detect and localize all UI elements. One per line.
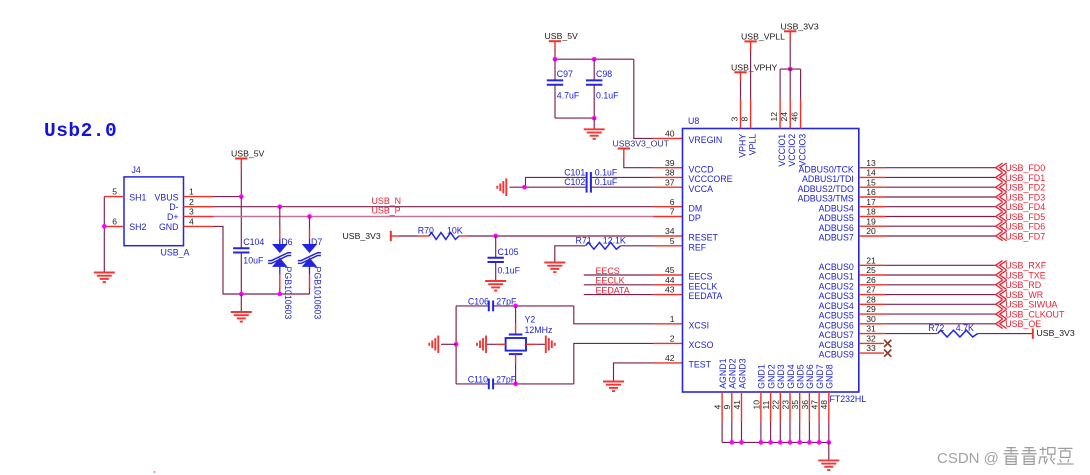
- svg-text:USB_WR: USB_WR: [1005, 290, 1043, 300]
- wire AGND2 pin9: [731, 392, 733, 422]
- power port USB_VPHY: [734, 71, 746, 73]
- svg-text:VCCA: VCCA: [689, 184, 714, 194]
- svg-text:USB_A: USB_A: [161, 248, 190, 258]
- wire R71 to REF pin5: [621, 245, 654, 247]
- svg-text:30: 30: [866, 314, 876, 324]
- svg-text:45: 45: [665, 265, 675, 275]
- svg-text:EECS: EECS: [689, 272, 713, 282]
- svg-text:22: 22: [771, 400, 781, 410]
- wire USB_P (D+): [214, 216, 654, 218]
- svg-text:ADBUS4: ADBUS4: [819, 203, 854, 213]
- pin 13 ADBUS0/TCK wire: [859, 167, 886, 169]
- pin 18 ADBUS5 wire: [859, 216, 886, 218]
- svg-text:USB_FD7: USB_FD7: [1005, 231, 1045, 241]
- ground under C104: [231, 312, 252, 322]
- junction GND7: [817, 440, 822, 445]
- svg-text:36: 36: [800, 400, 810, 410]
- ground under C98: [584, 129, 605, 139]
- svg-text:GND4: GND4: [786, 364, 796, 389]
- sheet entry USB_FD4: [996, 202, 1007, 211]
- junction VBUS/USB_5V: [239, 194, 244, 199]
- junction C104/gnd: [239, 292, 244, 297]
- wire AGND1 pin4: [721, 392, 723, 422]
- svg-text:0.1uF: 0.1uF: [596, 90, 619, 100]
- svg-text:16: 16: [866, 187, 876, 197]
- svg-text:24: 24: [779, 112, 789, 122]
- svg-text:ACBUS1: ACBUS1: [819, 272, 854, 282]
- wire crystal top rail: [456, 305, 489, 307]
- svg-text:AGND1: AGND1: [718, 358, 728, 388]
- svg-text:Usb2.0: Usb2.0: [44, 120, 117, 142]
- svg-text:REF: REF: [689, 242, 707, 252]
- sheet entry USB_OE: [996, 319, 1007, 328]
- sheet entry USB_FD1: [996, 173, 1007, 182]
- junction GND2: [768, 440, 773, 445]
- wire R72 to USB_3V3: [978, 333, 1032, 335]
- wire VCCIO3 pin46: [800, 69, 802, 99]
- svg-text:D+: D+: [167, 212, 179, 222]
- svg-text:6: 6: [112, 217, 117, 227]
- wire ACBUS7 to R72: [885, 333, 937, 335]
- svg-text:1: 1: [189, 187, 194, 197]
- crystal Y2 12MHz: [515, 306, 517, 324]
- svg-text:AGND3: AGND3: [737, 358, 747, 388]
- svg-text:C101: C101: [564, 167, 585, 177]
- junction J4 pin6: [102, 224, 107, 229]
- J4 pin 4 stub: [184, 225, 214, 227]
- svg-text:VCCIO3: VCCIO3: [798, 134, 808, 167]
- sheet entry USB_FD2: [996, 183, 1007, 192]
- svg-text:C105: C105: [498, 247, 519, 257]
- junction AGND2: [729, 440, 734, 445]
- svg-text:18: 18: [866, 207, 876, 217]
- svg-text:R70: R70: [418, 226, 434, 236]
- svg-text:C97: C97: [557, 69, 573, 79]
- sideways ground (crystal left): [477, 336, 486, 354]
- svg-text:42: 42: [665, 353, 675, 363]
- wire crystal bottom rail: [456, 383, 489, 385]
- wire EECLK: [584, 284, 653, 286]
- wire GND8 pin48: [828, 392, 830, 422]
- junction D6/gnd: [277, 292, 282, 297]
- wire GND4 pin23: [789, 392, 791, 422]
- power port USB_3V3 (left): [390, 231, 392, 241]
- wire GND5 pin35: [799, 392, 801, 422]
- svg-text:USB_FD3: USB_FD3: [1005, 192, 1045, 202]
- svg-text:ACBUS9: ACBUS9: [819, 350, 854, 360]
- wire GND2 pin11: [770, 392, 772, 422]
- svg-text:0.1uF: 0.1uF: [595, 167, 618, 177]
- capacitor C101: [587, 172, 591, 183]
- svg-text:C110: C110: [468, 374, 488, 384]
- wire USB_3V3 to VCCIO pins: [789, 31, 791, 41]
- junction GND4: [788, 440, 793, 445]
- svg-text:USB_SIWUA: USB_SIWUA: [1005, 300, 1057, 310]
- svg-text:C98: C98: [596, 69, 612, 79]
- wire C101 left: [526, 177, 587, 187]
- pin 29 ACBUS5 wire: [859, 313, 886, 315]
- svg-text:21: 21: [866, 255, 876, 265]
- svg-text:2: 2: [189, 197, 194, 207]
- junction GND5: [797, 440, 802, 445]
- pin 30 ACBUS6 wire: [859, 323, 886, 325]
- svg-text:USB_FD6: USB_FD6: [1005, 222, 1045, 232]
- svg-text:SH1: SH1: [129, 192, 146, 202]
- capacitor C102: [587, 182, 591, 193]
- svg-text:USB_FD0: USB_FD0: [1005, 163, 1045, 173]
- sideways ground (C101/C102): [497, 178, 506, 196]
- wire stub to ground: [240, 294, 242, 312]
- svg-text:XCSI: XCSI: [689, 320, 710, 330]
- power port USB_3V3 (right): [1032, 328, 1034, 338]
- svg-text:GND1: GND1: [757, 364, 767, 389]
- pin 21 ACBUS0 wire: [859, 264, 886, 266]
- pin 27 ACBUS3 wire: [859, 294, 886, 296]
- wire to far-left ground: [441, 343, 456, 345]
- svg-text:VPLL: VPLL: [748, 134, 758, 156]
- wire top rail to XCSI pin1: [574, 306, 653, 324]
- svg-text:ADBUS3/TMS: ADBUS3/TMS: [798, 194, 854, 204]
- svg-text:EEDATA: EEDATA: [689, 291, 723, 301]
- crystal case pin left: [497, 343, 506, 345]
- wire USB_5V to C104: [240, 197, 242, 248]
- resistor R70 10K: [418, 235, 430, 237]
- svg-text:GND6: GND6: [805, 364, 815, 389]
- svg-text:14: 14: [866, 168, 876, 178]
- wire USB_5V down to VBUS: [240, 159, 242, 169]
- wire USB3V3_OUT to VCCD pin39: [623, 149, 625, 158]
- svg-text:USB_5V: USB_5V: [231, 149, 265, 159]
- svg-text:GND7: GND7: [815, 364, 825, 389]
- svg-text:44: 44: [665, 275, 675, 285]
- wire EECS: [584, 274, 653, 276]
- wire crystal left rail: [455, 306, 457, 384]
- svg-text:VCCD: VCCD: [689, 164, 714, 174]
- svg-text:12MHz: 12MHz: [525, 325, 553, 335]
- svg-text:USB_P: USB_P: [372, 205, 401, 215]
- svg-text:RESET: RESET: [689, 233, 719, 243]
- J4 pin 5 stub: [104, 196, 124, 198]
- ground under TEST: [603, 382, 624, 392]
- svg-text:38: 38: [665, 168, 675, 178]
- wire rail to VREGIN pin40: [634, 59, 653, 138]
- sheet entry USB_FD0: [996, 163, 1007, 172]
- wire C105 to ground: [495, 262, 497, 281]
- svg-text:32: 32: [866, 334, 876, 344]
- svg-text:C104: C104: [243, 237, 264, 247]
- junction crystal bottom: [513, 382, 518, 387]
- svg-text:27: 27: [866, 285, 876, 295]
- ground under J4: [94, 273, 115, 283]
- junction D7 on USB_P: [307, 214, 312, 219]
- junction bottom rail: [592, 116, 597, 121]
- wire USB_N (D-): [214, 206, 654, 208]
- wire USB_P to D7: [309, 217, 311, 230]
- wire TEST pin42 to ground: [614, 363, 654, 382]
- J4 pin 1 stub: [184, 196, 214, 198]
- svg-text:11: 11: [761, 400, 771, 409]
- svg-text:28: 28: [866, 294, 876, 304]
- svg-text:C106: C106: [468, 296, 489, 306]
- svg-text:USB_FD1: USB_FD1: [1005, 173, 1045, 183]
- svg-text:GND: GND: [159, 222, 179, 232]
- svg-text:USB_FD5: USB_FD5: [1005, 212, 1045, 222]
- wire EEDATA: [584, 294, 653, 296]
- svg-text:4: 4: [189, 217, 194, 227]
- svg-text:R72: R72: [928, 323, 944, 333]
- power port USB_VPLL: [744, 40, 756, 42]
- svg-text:41: 41: [732, 400, 742, 410]
- junction C101/C102: [522, 185, 527, 190]
- svg-text:10K: 10K: [447, 226, 463, 236]
- svg-text:4.7K: 4.7K: [956, 323, 974, 333]
- wire D6 to gnd bus: [279, 275, 281, 289]
- wire VCCIO2 pin24: [789, 69, 791, 99]
- svg-text:34: 34: [665, 226, 675, 236]
- svg-text:13: 13: [866, 158, 876, 168]
- sheet entry USB_FD7: [996, 231, 1007, 240]
- crystal case pin right: [526, 343, 536, 345]
- svg-text:FT232HL: FT232HL: [830, 394, 867, 404]
- pin 26 ACBUS2 wire: [859, 284, 886, 286]
- pin 20 ADBUS7 wire: [859, 235, 886, 237]
- wire GND1 pin10: [760, 392, 762, 422]
- svg-text:EECLK: EECLK: [596, 276, 625, 286]
- svg-text:25: 25: [866, 265, 876, 275]
- svg-text:0.1uF: 0.1uF: [498, 266, 521, 276]
- svg-text:4: 4: [713, 405, 723, 410]
- svg-text:23: 23: [780, 400, 790, 410]
- wire GND6 pin36: [808, 392, 810, 422]
- junction C97: [553, 57, 558, 62]
- junction C98: [592, 57, 597, 62]
- svg-text:39: 39: [665, 158, 675, 168]
- wire VCCIO1 pin12: [779, 69, 781, 99]
- svg-text:3: 3: [189, 207, 194, 217]
- junction GND3: [778, 440, 783, 445]
- svg-text:35: 35: [790, 400, 800, 410]
- svg-text:USB_3V3: USB_3V3: [1037, 328, 1075, 338]
- svg-text:6: 6: [670, 197, 675, 207]
- svg-text:PGB1010603: PGB1010603: [283, 267, 293, 320]
- svg-text:Y2: Y2: [525, 314, 536, 324]
- svg-text:USB_TXE: USB_TXE: [1005, 270, 1046, 280]
- svg-text:12: 12: [769, 112, 779, 122]
- wire C104 to gnd bus: [240, 253, 242, 295]
- svg-text:USB_FD2: USB_FD2: [1005, 183, 1045, 193]
- svg-text:2: 2: [670, 334, 675, 344]
- junction left rail: [454, 342, 459, 347]
- svg-text:VPHY: VPHY: [738, 134, 748, 158]
- svg-text:ADBUS2/TDO: ADBUS2/TDO: [798, 184, 854, 194]
- svg-text:3: 3: [729, 117, 739, 122]
- svg-text:ADBUS1/TDI: ADBUS1/TDI: [802, 174, 854, 184]
- svg-text:15: 15: [866, 177, 876, 187]
- svg-text:USB_RD: USB_RD: [1005, 280, 1041, 290]
- svg-text:VCCIO1: VCCIO1: [777, 134, 787, 167]
- svg-text:20: 20: [866, 226, 876, 236]
- ground under U8: [818, 460, 839, 470]
- svg-text:1: 1: [670, 314, 675, 324]
- capacitor C106 27pF: [489, 301, 493, 312]
- ground under C105: [485, 281, 506, 291]
- sheet entry USB_WR: [996, 290, 1007, 299]
- wire GND7 pin47: [818, 392, 820, 422]
- svg-text:XCSO: XCSO: [689, 340, 714, 350]
- sheet entry USB_FD5: [996, 212, 1007, 221]
- svg-text:7: 7: [670, 207, 675, 217]
- power port USB3V3_OUT: [618, 148, 630, 150]
- IC U8 FT232HL box: [683, 129, 859, 393]
- stray mark: [154, 471, 156, 473]
- svg-text:EECS: EECS: [596, 266, 620, 276]
- svg-text:USB_VPLL: USB_VPLL: [741, 31, 785, 41]
- wire to ground: [593, 118, 595, 129]
- wire bottom rail: [555, 117, 594, 119]
- wire VBUS: [214, 196, 242, 198]
- svg-text:46: 46: [789, 112, 799, 122]
- wire bottom rail to XCSO pin2: [574, 343, 653, 384]
- wire VPLL pin8: [750, 41, 752, 51]
- power port USB_5V (C97): [549, 40, 561, 42]
- wire top rail: [555, 58, 634, 60]
- pin 19 ADBUS6 wire: [859, 225, 886, 227]
- wire USB_5V down: [554, 41, 556, 49]
- pin 16 ADBUS3/TMS wire: [859, 196, 886, 198]
- svg-text:D7: D7: [311, 237, 322, 247]
- svg-text:10uF: 10uF: [243, 256, 264, 266]
- wire GND3 pin22: [779, 392, 781, 422]
- pin 28 ACBUS4 wire: [859, 303, 886, 305]
- svg-text:VBUS: VBUS: [155, 192, 179, 202]
- wire AGND3 pin41: [741, 392, 743, 422]
- svg-text:5: 5: [112, 187, 117, 197]
- junction C105: [493, 234, 498, 239]
- svg-text:17: 17: [866, 197, 876, 207]
- wire USB_N to D6: [279, 207, 281, 229]
- svg-text:VCCIO2: VCCIO2: [787, 134, 797, 167]
- svg-text:ACBUS6: ACBUS6: [819, 320, 854, 330]
- connector J4 box: [124, 177, 184, 246]
- svg-text:USB_FD4: USB_FD4: [1005, 202, 1045, 212]
- svg-text:10: 10: [751, 400, 761, 410]
- wire gnd bus: [722, 441, 829, 443]
- diode D7 PGB1010603: [298, 239, 321, 275]
- wire bus to ground: [828, 442, 830, 460]
- svg-text:ADBUS5: ADBUS5: [819, 213, 854, 223]
- junction VCCIO rail: [788, 67, 793, 72]
- svg-text:31: 31: [866, 324, 876, 334]
- svg-text:TEST: TEST: [689, 360, 712, 370]
- svg-text:VREGIN: VREGIN: [689, 135, 723, 145]
- diode D6 PGB1010603: [268, 239, 291, 275]
- svg-text:33: 33: [866, 343, 876, 353]
- sheet entry USB_FD6: [996, 222, 1007, 231]
- svg-text:USB_CLKOUT: USB_CLKOUT: [1005, 310, 1065, 320]
- svg-text:SH2: SH2: [129, 222, 146, 232]
- svg-text:ACBUS0: ACBUS0: [819, 262, 854, 272]
- capacitor C105: [488, 258, 504, 262]
- svg-text:GND5: GND5: [796, 364, 806, 389]
- svg-text:PGB1010603: PGB1010603: [313, 267, 323, 320]
- junction GND6: [807, 440, 812, 445]
- svg-text:37: 37: [665, 177, 675, 187]
- ground under R71: [544, 263, 565, 273]
- svg-text:U8: U8: [688, 116, 699, 126]
- J4 pin 2 stub: [184, 206, 214, 208]
- capacitor C97: [554, 59, 556, 80]
- svg-text:ACBUS4: ACBUS4: [819, 301, 854, 311]
- svg-text:26: 26: [866, 275, 876, 285]
- svg-text:DP: DP: [689, 213, 701, 223]
- svg-text:AGND2: AGND2: [728, 358, 738, 388]
- svg-text:ACBUS3: ACBUS3: [819, 291, 854, 301]
- svg-text:ACBUS5: ACBUS5: [819, 311, 854, 321]
- svg-text:VCCCORE: VCCCORE: [689, 174, 733, 184]
- sheet entry USB_SIWUA: [996, 300, 1007, 309]
- svg-text:J4: J4: [132, 165, 141, 175]
- svg-text:47: 47: [810, 400, 820, 410]
- svg-text:ADBUS7: ADBUS7: [819, 233, 854, 243]
- svg-text:CSDN @: CSDN @: [937, 450, 999, 467]
- pin 14 ADBUS1/TDI wire: [859, 176, 886, 178]
- svg-text:ACBUS2: ACBUS2: [819, 281, 854, 291]
- capacitor C104: [233, 248, 249, 252]
- J4 pin 6 stub: [104, 225, 124, 227]
- svg-text:19: 19: [866, 216, 876, 226]
- resistor R71 12.1K: [586, 242, 621, 249]
- capacitor C98: [593, 59, 595, 80]
- svg-text:8: 8: [739, 117, 749, 122]
- svg-text:D-: D-: [169, 202, 178, 212]
- svg-text:4.7uF: 4.7uF: [557, 90, 580, 100]
- svg-text:43: 43: [665, 285, 675, 295]
- svg-text:48: 48: [819, 400, 829, 410]
- sheet entry USB_TXE: [996, 270, 1007, 279]
- svg-text:GND8: GND8: [825, 364, 835, 389]
- wire USB_3V3 to R70: [391, 235, 399, 237]
- wire R70 to RESET pin34: [468, 235, 654, 237]
- svg-text:ACBUS8: ACBUS8: [819, 340, 854, 350]
- capacitor C110 27pF: [489, 379, 493, 390]
- wire C102 to pin37: [591, 186, 653, 188]
- pin 17 ADBUS4 wire: [859, 206, 886, 208]
- svg-text:0.1uF: 0.1uF: [595, 177, 618, 187]
- svg-text:29: 29: [866, 304, 876, 314]
- svg-text:USB3V3_OUT: USB3V3_OUT: [613, 139, 670, 149]
- svg-text:ADBUS6: ADBUS6: [819, 223, 854, 233]
- svg-text:5: 5: [670, 236, 675, 246]
- wire C101 to pin38: [591, 176, 653, 178]
- wire J4 shield to ground: [103, 197, 105, 273]
- sheet entry USB_RD: [996, 280, 1007, 289]
- pin 15 ADBUS2/TDO wire: [859, 186, 886, 188]
- wire C102 left to ground: [510, 186, 587, 188]
- junction GND8: [826, 440, 831, 445]
- wire VPHY pin3: [740, 72, 742, 81]
- svg-text:USB_5V: USB_5V: [545, 31, 579, 41]
- svg-text:USB_3V3: USB_3V3: [781, 21, 819, 31]
- resistor R72 4.7K: [938, 330, 978, 337]
- svg-text:DM: DM: [689, 203, 703, 213]
- power port USB_5V (J4): [235, 158, 247, 160]
- svg-text:USB_RXF: USB_RXF: [1005, 261, 1047, 271]
- svg-text:40: 40: [665, 129, 675, 139]
- svg-text:D6: D6: [281, 237, 292, 247]
- svg-text:USB_3V3: USB_3V3: [343, 231, 381, 241]
- wire D7 to gnd bus: [309, 275, 311, 289]
- svg-text:EECLK: EECLK: [689, 281, 718, 291]
